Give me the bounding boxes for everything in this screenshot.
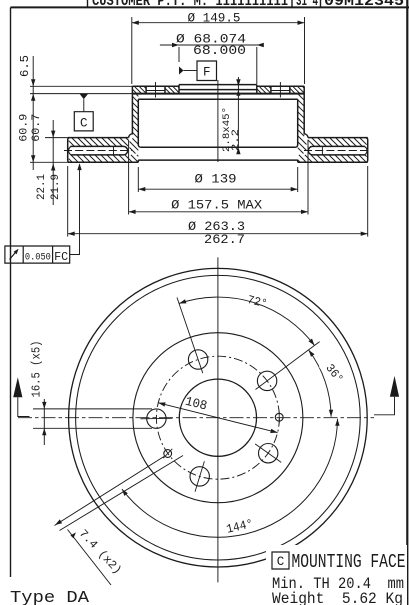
title block cell separators [87,0,89,7]
vent centre dash line left [64,150,132,152]
leader text shelf [68,530,112,586]
mounting face line [132,93,304,95]
svg-text:6.5: 6.5 [18,55,32,77]
datum C box in note [272,552,289,569]
svg-text:C: C [277,555,285,569]
vent OD cap left [69,147,71,155]
svg-text:7.4 (x2): 7.4 (x2) [76,527,124,577]
hat circle [133,333,303,503]
svg-text:16.5 (x5): 16.5 (x5) [30,341,43,398]
svg-text:CUSTOMER P.T. M. 1111111111: CUSTOMER P.T. M. 1111111111 [92,0,288,10]
bolt hole 1 [188,350,207,369]
bolt hole centrelines [155,82,157,98]
hat wall hatch left [137,95,139,97]
72 deg dim arc [179,297,315,345]
flange top face [132,85,179,87]
ring hatch top band right [366,138,367,139]
dim Ø157.5 MAX [128,140,130,215]
dim Ø149.5 extension lines [131,17,133,84]
ring bottom ext left [30,161,68,163]
vent channel right [308,146,365,155]
svg-text:60.9: 60.9 [19,114,31,142]
ring hatch bottom band left [137,155,138,156]
datum F leader [184,70,197,72]
svg-text:72°: 72° [246,293,269,311]
svg-text:2.2: 2.2 [230,129,242,151]
dim 108 line [158,403,277,433]
under-hat lower line [138,159,297,161]
svg-text:22.1: 22.1 [36,174,48,200]
dim Ø68.074/68.000 [160,44,262,46]
dim 22.1/21.9 [52,120,54,205]
ring hatch top band left [126,138,128,140]
centre bore circle [179,379,256,456]
vent channel left: top+bottom walls with round end [71,146,128,155]
svg-text:09M12345: 09M12345 [324,0,404,10]
sheet right border [406,0,408,605]
bore wall left [178,85,180,94]
ring outer edge left [68,138,70,163]
outer inner-edge circle [76,275,361,560]
svg-text:60.7: 60.7 [31,114,43,142]
datum C stem [83,99,85,112]
bolt hole 5 [147,409,166,428]
ring top face ext to left (22.1 dim) [45,137,68,139]
mounting face extension to left [30,93,132,95]
pin hole 2 [275,413,283,421]
svg-text:C: C [80,117,88,131]
datum F triangle [179,67,184,75]
vertical centreline [217,257,219,582]
bore wall right [256,85,258,94]
svg-text:0.050: 0.050 [25,251,51,263]
svg-text:262.7: 262.7 [204,233,245,247]
datum F box [197,61,217,81]
dim Ø149.5 dimension line [132,22,305,24]
dim 6.5 + 60.9/60.7 shared line [32,56,34,170]
vent OD cap right [365,147,367,155]
chamfer dim line [237,77,239,147]
datum C box [74,112,93,131]
svg-text:68.000: 68.000 [193,44,246,58]
144 deg dim arc [122,419,338,538]
svg-text:Ø 157.5 MAX: Ø 157.5 MAX [171,199,263,213]
outer circle [69,268,368,567]
rotation arrow left [13,377,22,397]
ring outer edge right [366,138,368,163]
bolt hole 4 [190,467,209,486]
bolt hole 3 [259,444,278,463]
svg-text:FC: FC [54,250,68,264]
raised centre band top [179,84,257,86]
runout symbol arrow [10,250,18,260]
vent centre dash line right [304,150,371,152]
hat interior underside [138,98,297,100]
36 deg dim arc [309,350,332,417]
ring top face right [308,137,368,139]
dim Ø139 [137,167,139,192]
svg-text:21.9: 21.9 [50,174,62,200]
ring hatch bottom band right [365,155,367,157]
hat wall left outer [129,86,133,137]
section centreline [217,80,219,162]
FCF leader [70,165,80,255]
sheet top border line [11,6,409,8]
sheet left border [10,7,12,577]
bore chamfer edge line [179,89,257,91]
bolt hole 2 [257,371,276,390]
runout FCF box [5,246,70,263]
pin hole 1 [164,450,172,458]
text block background [266,545,407,605]
bolt hole R edges in section [270,86,272,93]
hat wall right inner [295,99,297,147]
ring bottom face [68,161,139,163]
svg-text:Ø 149.5: Ø 149.5 [188,11,241,25]
flange hatch [144,86,146,88]
svg-text:31 4: 31 4 [296,0,318,10]
hat wall right outer [304,86,308,137]
dim 16.5 extension lines [33,408,152,410]
horizontal centreline [18,417,374,419]
svg-text:F: F [203,66,211,80]
under-hat upper line [141,146,296,148]
leader A to pin hole 1 [55,457,165,526]
svg-text:Ø 139: Ø 139 [195,172,237,186]
ring top face left [68,137,129,139]
dim 16.5 line + arrows [43,399,45,445]
svg-text:Ø 263.3: Ø 263.3 [188,220,245,234]
svg-text:Type DA: Type DA [10,589,90,605]
vent vane lines [113,146,115,155]
under-hat step connectors [137,160,139,162]
flange top face extension to left [30,85,132,87]
hat wall left inner [138,99,140,147]
rotation arrow right [390,376,399,397]
bolt circle (dash-dot) [156,356,279,479]
leader B to bolt circle near pin hole 2 [60,456,184,531]
datum C triangle [80,94,89,99]
svg-text:144°: 144° [225,517,254,537]
svg-text:Weight 5.62 Kg: Weight 5.62 Kg [272,590,403,605]
svg-text:MOUNTING FACE: MOUNTING FACE [292,551,406,573]
hat wall hatch right [299,95,305,101]
bolt hole L edges in section [145,86,147,93]
dim Ø263.3 / 262.7 [67,166,69,237]
dim Ø68 extension lines [178,47,180,62]
